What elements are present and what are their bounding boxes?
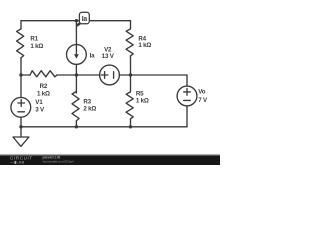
- svg-text:Ia: Ia: [90, 52, 96, 59]
- svg-text:Ia: Ia: [82, 16, 88, 23]
- svg-text:http://circuitlab.com/c/9G3ap4: http://circuitlab.com/c/9G3ap4: [43, 160, 75, 164]
- svg-text:R2: R2: [40, 83, 48, 90]
- svg-text:R5: R5: [136, 90, 144, 97]
- svg-text:7 V: 7 V: [198, 97, 208, 104]
- svg-text:1 kΩ: 1 kΩ: [30, 43, 43, 50]
- svg-text:13 V: 13 V: [102, 53, 115, 60]
- svg-text:3 V: 3 V: [35, 106, 45, 113]
- svg-text:1 kΩ: 1 kΩ: [138, 42, 151, 49]
- svg-text:V1: V1: [35, 99, 43, 106]
- svg-text:—▮LAB: —▮LAB: [10, 160, 25, 165]
- svg-text:1 kΩ: 1 kΩ: [37, 91, 50, 98]
- svg-text:2 kΩ: 2 kΩ: [83, 106, 96, 113]
- svg-text:1 kΩ: 1 kΩ: [136, 97, 149, 104]
- svg-text:R1: R1: [30, 36, 38, 43]
- svg-text:Vo: Vo: [198, 89, 205, 96]
- svg-text:R3: R3: [83, 99, 91, 106]
